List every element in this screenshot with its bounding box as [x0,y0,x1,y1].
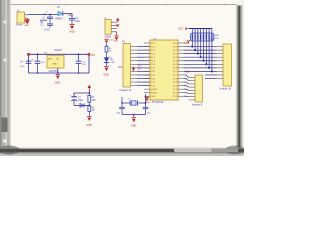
wire crystal loop [121,94,146,117]
svg-text:Power: Power [16,24,23,27]
capacitor C4 [20,61,31,68]
svg-text:VCC: VCC [173,43,178,45]
svg-text:GND: GND [44,29,50,32]
svg-text:10K: 10K [92,100,97,102]
svg-text:GND: GND [69,31,75,34]
wire reset top [74,91,90,97]
svg-text:GND: GND [24,25,29,27]
capacitor C3 [69,17,81,24]
svg-text:GND: GND [53,63,58,65]
svg-text:Header 8: Header 8 [192,104,203,107]
node VIN junction marker [27,50,63,55]
svg-text:VCC: VCC [178,28,183,31]
wire VIN rail (regulator top) [29,54,90,74]
ground GND Y1 [131,118,137,128]
svg-text:GND: GND [151,96,156,98]
ground GND reset [86,116,92,126]
svg-text:+5V: +5V [109,40,113,42]
svg-text:GND: GND [86,124,92,127]
svg-text:+5V: +5V [91,54,96,57]
svg-text:VCC: VCC [118,67,123,69]
svg-text:Header 12: Header 12 [120,89,132,92]
svg-text:VIN: VIN [48,59,52,61]
power port +5V LED branch [105,39,114,43]
capacitor C1 [42,12,53,24]
power port VCC P1 [118,67,135,72]
svg-text:10K: 10K [215,38,219,40]
power port +5V (input section) [68,14,73,17]
svg-text:STC89C52: STC89C52 [152,101,164,104]
wire U2 to J3 [184,75,189,97]
resistor R2 [88,106,95,116]
resistor R3 [105,43,112,57]
capacitor C8 [117,103,125,115]
IC U2 microcontroller AT89C52 [144,39,184,105]
power port VBUS USB [116,25,119,27]
ground GND C3 [69,25,75,34]
resistor R1 [88,93,96,105]
header J3 (8-pin) [189,75,203,107]
wire P0 bus verticals with staircase junctions [191,29,212,73]
svg-text:XTAL1: XTAL1 [151,92,158,95]
LED D5 [104,57,115,67]
power port VCC U2 pin40 [184,40,190,43]
connector P1 (12-pin, left of MCU) [120,41,138,92]
diode D1 [55,6,64,20]
capacitor C7 [69,94,83,105]
svg-text:GND: GND [103,73,109,76]
svg-text:GND: GND [55,82,61,85]
wire reset mid [74,105,90,106]
wire P0 bus horizontals to right connector [184,47,217,79]
capacitor C2 [41,24,54,32]
svg-text:470u: 470u [20,66,26,68]
svg-text:LM7805: LM7805 [49,70,59,73]
ground GND J1 [24,18,29,27]
wire bus P1 to U2 [137,47,150,86]
power port VCC USB [116,18,119,23]
svg-text:IN4007: IN4007 [55,17,64,20]
ground GND U3 [55,74,61,84]
net label RST [138,66,143,72]
wire VIN rail top [28,14,58,15]
crystal Y1 [122,99,146,106]
net label ALE [185,71,190,74]
svg-text:+5V: +5V [68,14,73,17]
regulator U3 LM7805 [47,55,64,73]
ground GND U2 [145,96,150,104]
capacitor C5 [31,54,45,73]
svg-text:10uF: 10uF [78,100,84,102]
ground GND USB [114,32,119,43]
capacitor C6 [76,54,87,73]
connector J4 (right, 10-pin) [210,39,232,91]
svg-text:VO: VO [56,59,59,61]
svg-text:Header 10: Header 10 [220,88,232,91]
capacitor C9 [143,103,152,115]
power port VCC RP1 [178,27,188,30]
svg-text:GND: GND [114,40,119,42]
svg-text:ALE: ALE [185,71,190,74]
power port VCC reset [88,85,92,91]
power port +5V output [88,53,96,57]
wire +5V node [63,14,72,19]
svg-text:10uF: 10uF [75,21,81,23]
svg-text:XTAL2: XTAL2 [151,88,158,91]
connector J1 power input [16,9,28,26]
connector USB J2 [104,18,117,38]
ground GND LED [103,66,109,76]
svg-text:USB-B: USB-B [104,37,111,39]
svg-text:1N4007: 1N4007 [54,50,63,52]
net stub left of C1 [40,20,48,24]
svg-text:LED: LED [111,62,116,64]
resistor network RP1 [189,29,221,42]
svg-text:1K: 1K [92,110,95,112]
svg-text:GND: GND [131,124,137,127]
diode D3 [80,103,84,107]
